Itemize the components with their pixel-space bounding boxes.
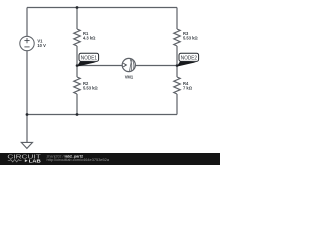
svg-text:10 V: 10 V	[37, 43, 46, 48]
svg-text:4.3 kΩ: 4.3 kΩ	[83, 36, 96, 41]
svg-text:5.53 kΩ: 5.53 kΩ	[83, 86, 98, 91]
svg-text:VM1: VM1	[125, 75, 134, 80]
svg-text:LAB: LAB	[29, 158, 42, 163]
svg-text:5.53 kΩ: 5.53 kΩ	[183, 36, 198, 41]
svg-text:NODE2: NODE2	[181, 55, 197, 61]
svg-text:http://circuitlab.com/c464e375: http://circuitlab.com/c464e3753e52a	[47, 157, 110, 162]
svg-text:NODE1: NODE1	[81, 55, 97, 61]
svg-text:7 kΩ: 7 kΩ	[183, 86, 193, 91]
